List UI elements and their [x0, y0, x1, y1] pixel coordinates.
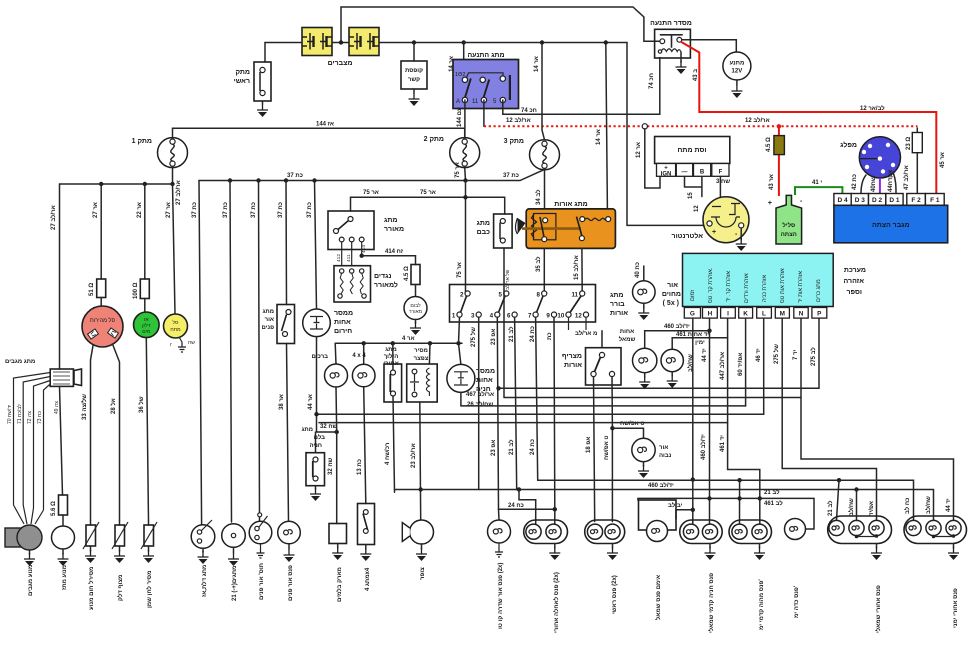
svg-text:נגדים: נגדים — [374, 273, 391, 280]
dimmer high beam wire — [611, 377, 613, 522]
svg-text:M: M — [780, 311, 785, 318]
svg-text:P: P — [817, 311, 822, 318]
ballast resistor 4.5 ohm — [774, 136, 785, 155]
svg-text:( 5x ): ( 5x ) — [663, 300, 679, 307]
svg-text:אקדח44: אקדח44 — [888, 170, 894, 192]
svg-text:שח 3: שח 3 — [716, 179, 730, 185]
fuel float sender — [119, 521, 121, 525]
svg-text:מתג 4x4: מתג 4x4 — [365, 567, 371, 591]
wire bus to breaker3 — [542, 43, 545, 140]
svg-text:מתג דלת,אז: מתג דלת,אז — [200, 565, 208, 597]
brake light switch (center) — [494, 214, 512, 248]
svg-text:H: H — [708, 311, 713, 318]
svg-text:73 כח: 73 כח — [37, 411, 43, 424]
svg-text:כת 37: כת 37 — [307, 202, 313, 218]
distributor wires to module — [861, 175, 866, 194]
svg-text:מ אר/לב: מ אר/לב — [575, 329, 597, 337]
svg-text:שח: שח — [188, 340, 195, 346]
svg-text:אר 75: אר 75 — [457, 262, 463, 278]
side marker lamp single — [498, 509, 501, 520]
starter motor 12V — [723, 52, 751, 80]
svg-text:מסדר התנעה: מסדר התנעה — [650, 20, 692, 27]
svg-text:מתג: מתג — [384, 217, 397, 224]
4x4 indicator — [363, 343, 365, 364]
ar4 accessory line — [335, 342, 462, 344]
wiper switch assembly — [50, 369, 81, 386]
svg-text:כת 13: כת 13 — [357, 459, 363, 475]
svg-text:זמזם: זמזם — [690, 290, 696, 301]
svg-text:אר 43: אר 43 — [769, 174, 775, 190]
battery B2 — [349, 28, 379, 56]
svg-text:כח 24: כח 24 — [508, 503, 524, 509]
svg-text:סל: סל — [173, 319, 179, 326]
svg-text:פנס אחורי ימני: פנס אחורי ימני — [953, 588, 959, 628]
starter relay box — [655, 29, 691, 58]
svg-text:5: 5 — [499, 292, 503, 299]
red wire to ballast resistor and coil — [778, 126, 780, 196]
svg-text:אר 22: אר 22 — [137, 202, 143, 218]
svg-text:F: F — [719, 170, 723, 176]
svg-text:שח/לב 26: שח/לב 26 — [467, 400, 493, 408]
svg-text:4.5 Ω: 4.5 Ω — [766, 137, 772, 152]
svg-text:אורות: אורות — [610, 310, 628, 317]
resistor 51 ohm — [97, 279, 106, 298]
fuel gauge — [134, 312, 160, 338]
svg-text:מצברים: מצברים — [328, 60, 353, 67]
bus E — [319, 422, 728, 424]
wire relay to starter motor — [682, 40, 737, 52]
main parking bus 460 — [395, 490, 934, 522]
ignition module pins D4 D3 D2 D1 F2 F1 — [834, 194, 944, 206]
knee lamp circle — [334, 343, 337, 364]
svg-text:אפ 23: אפ 23 — [491, 329, 497, 345]
wire to capacitor box — [413, 43, 415, 62]
kat37 drops left — [199, 181, 202, 525]
svg-text:2: 2 — [460, 292, 464, 299]
svg-text:סל מהירות: סל מהירות — [90, 317, 116, 324]
left side marker with connector — [639, 500, 677, 530]
horn relay — [428, 343, 431, 364]
dimmer low beam wire to headlamps — [594, 377, 595, 522]
svg-text:מתגים(+-) 21: מתגים(+-) 21 — [232, 566, 238, 601]
turn signal indicator lamp — [643, 266, 645, 281]
svg-text:שח/לב: שח/לב — [847, 498, 855, 516]
svg-text:אר/לב 15: אר/לב 15 — [572, 255, 580, 280]
junctions on left bus — [99, 182, 103, 186]
fuse circuit breaker 3 — [530, 140, 560, 170]
svg-text:נבוה: נבוה — [659, 453, 672, 459]
svg-text:N: N — [799, 311, 804, 318]
fuel sender wire — [146, 338, 148, 521]
svg-text:כת 37: כת 37 — [503, 173, 519, 179]
svg-text:כת 37: כת 37 — [251, 202, 257, 218]
svg-text:5.6 Ω: 5.6 Ω — [51, 501, 57, 516]
svg-text:כבם: כבם — [477, 229, 491, 236]
wire to interior light switch — [286, 181, 289, 522]
svg-text:חכ 74: חכ 74 — [649, 73, 655, 89]
ground below alternator — [740, 228, 742, 240]
svg-text:4: 4 — [490, 313, 494, 320]
svg-text:אור: אור — [667, 282, 678, 289]
svg-text:שח 32: שח 32 — [328, 457, 334, 475]
svg-text:עם 144: עם 144 — [457, 107, 463, 127]
wire bus to wiper switch — [59, 184, 61, 369]
svg-text:אזהרת ורדים: אזהרת ורדים — [744, 273, 750, 303]
reverse gear switch — [392, 343, 394, 372]
svg-text:חירום: חירום — [334, 328, 352, 335]
svg-text:פנס כדה ימ': פנס כדה ימ' — [794, 585, 800, 618]
high beam indicator — [612, 428, 643, 438]
bus D — [317, 413, 764, 415]
junction ignition feed — [462, 40, 466, 44]
svg-text:יד/לב 460: יד/לב 460 — [648, 481, 674, 489]
left lamp bus — [60, 183, 173, 185]
bus A 467 — [499, 387, 820, 389]
fuse circuit breaker 1 — [158, 138, 188, 168]
svg-text:כת 37: כת 37 — [287, 173, 303, 179]
svg-text:אר 12: אר 12 — [636, 142, 642, 158]
side marker branch 461 — [638, 498, 814, 500]
svg-text:כת 42: כת 42 — [852, 174, 858, 190]
right side marker with loop — [785, 519, 806, 540]
red wire: starter relay to F1 — [681, 42, 937, 194]
fan resistor block — [334, 266, 371, 302]
washer feed with 5.6 ohm — [60, 387, 63, 496]
bus C — [461, 405, 746, 407]
courtesy switch A — [191, 520, 215, 548]
svg-text:אר 14: אר 14 — [596, 129, 602, 145]
svg-text:מצוף דלק: מצוף דלק — [116, 575, 124, 601]
svg-text:רכ/שח 4: רכ/שח 4 — [385, 443, 391, 465]
license plate lamp pair — [524, 520, 568, 544]
svg-text:ב 43: ב 43 — [693, 69, 699, 81]
svg-text:אזהרת קר. יד: אזהרת קר. יד — [726, 271, 732, 302]
washer pump — [52, 526, 75, 549]
svg-text:אר 14: אר 14 — [534, 56, 540, 72]
svg-text:למאורר: למאורר — [374, 281, 398, 289]
svg-text:A: A — [456, 99, 460, 105]
svg-text:פנס אור שדרה קו טו (2x): פנס אור שדרה קו טו (2x) — [498, 563, 504, 629]
wire labels above rear-left cluster — [856, 490, 858, 521]
dome lamp — [278, 521, 301, 544]
brake fluid sender box — [329, 524, 347, 544]
red node to coil — [777, 124, 781, 128]
wiper harness fan-out — [14, 373, 51, 511]
svg-text:23 Ω: 23 Ω — [906, 137, 912, 150]
svg-text:חניה: חניה — [309, 443, 322, 449]
svg-text:לב/אר 12: לב/אר 12 — [860, 104, 885, 112]
ignition switch box — [453, 60, 519, 109]
svg-text:אזהרת קר. טס.: אזהרת קר. טס. — [708, 267, 714, 303]
wire to hazard flasher — [315, 181, 317, 310]
front parking lamp left — [680, 520, 723, 544]
svg-text:L: L — [762, 311, 766, 318]
svg-text:מערכת: מערכת — [844, 267, 866, 274]
svg-text:B: B — [700, 170, 705, 176]
svg-text:אר 27: אר 27 — [166, 202, 172, 218]
speedo sender wires — [91, 344, 120, 521]
svg-text:אר/לב 47: אר/לב 47 — [902, 165, 910, 190]
svg-text:לבום: לבום — [410, 302, 421, 309]
svg-text:460 יד/לב: 460 יד/לב — [699, 434, 707, 460]
svg-text:אור: אור — [659, 445, 668, 451]
parking lights relay — [459, 343, 461, 364]
svg-text:פנים: פנים — [261, 325, 274, 331]
svg-text:בלם: בלם — [314, 433, 326, 441]
svg-text:כת: כת — [547, 332, 553, 340]
svg-text:לב 21: לב 21 — [507, 439, 515, 455]
svg-text:אלטרנטור: אלטרנטור — [672, 232, 704, 240]
svg-text:F 2: F 2 — [911, 197, 921, 204]
wire 5 terminal to starter relay coil — [503, 58, 660, 115]
svg-text:מאורר: מאורר — [384, 226, 404, 233]
license lamp feed kah24 — [499, 508, 555, 510]
svg-text:מסירל חום מנוע: מסירל חום מנוע — [87, 567, 95, 610]
svg-text:מנוע מתז: מנוע מתז — [62, 565, 68, 590]
svg-text:אר/לב 12: אר/לב 12 — [745, 116, 770, 124]
svg-text:הצתה: הצתה — [781, 232, 797, 238]
svg-text:36 של: 36 של — [137, 396, 145, 413]
svg-text:יד/לב 460: יד/לב 460 — [664, 322, 690, 330]
svg-text:I: I — [727, 311, 729, 318]
ground below main switch — [262, 101, 264, 104]
svg-text:אפ 23: אפ 23 — [491, 440, 497, 456]
feed from selector terminal 10 — [459, 317, 460, 343]
map lamp switch — [249, 513, 272, 544]
svg-text:אר 75: אר 75 — [363, 190, 379, 196]
svg-text:אר 44: אר 44 — [308, 394, 314, 410]
cluster pin drop wires — [692, 318, 694, 524]
svg-text:אר 75: אר 75 — [420, 190, 436, 196]
svg-text:אר/לב 27: אר/לב 27 — [174, 180, 182, 205]
wire bus to lighting relay coil right — [606, 43, 608, 209]
green wire coil to D4 — [795, 187, 842, 195]
parking brake switch — [315, 432, 317, 453]
svg-text:מתק 3: מתק 3 — [504, 138, 524, 145]
svg-text:מתג מגבים: מתג מגבים — [5, 359, 35, 365]
junction capacitor — [412, 40, 416, 44]
dimmer switch — [601, 331, 603, 348]
4x4 switch — [358, 504, 375, 545]
heater fan switch box — [328, 211, 374, 250]
svg-text:יד 44: יד 44 — [946, 498, 952, 512]
front parking lamp right — [729, 520, 772, 544]
svg-text:ברכים: ברכים — [312, 354, 329, 360]
svg-text:מצריף: מצריף — [562, 353, 582, 360]
ground below capacitor — [413, 89, 415, 93]
svg-text:מתג אורות: מתג אורות — [554, 201, 587, 208]
resistor 100 ohm — [140, 279, 149, 299]
temp sender — [90, 521, 92, 525]
horn feed line — [419, 487, 423, 491]
selector drop wires — [478, 317, 480, 489]
rear lamp cluster left — [828, 516, 892, 544]
wire breaker1 down to left bus — [172, 167, 174, 184]
svg-text:71 לב/כח: 71 לב/כח — [16, 404, 23, 424]
marker-connector link — [676, 510, 693, 519]
svg-text:שח40: שח40 — [871, 176, 877, 192]
svg-text:זח 414: זח 414 — [385, 249, 404, 255]
wire breaker3 down to lighting relay — [544, 170, 546, 209]
svg-text:אר/לב 12: אר/לב 12 — [506, 116, 531, 124]
svg-text:לב 275: לב 275 — [809, 347, 817, 366]
wire breaker2 down to center bus — [464, 167, 467, 180]
svg-text:לב 21: לב 21 — [764, 488, 780, 496]
wire 11 terminal down to red dotted start — [483, 100, 485, 126]
svg-text:כח לב: כח לב — [903, 498, 911, 514]
svg-text:מתח: מתח — [170, 327, 181, 333]
svg-text:D 3: D 3 — [855, 197, 866, 204]
capacitor box — [401, 61, 427, 89]
svg-text:יד 461: יד 461 — [720, 435, 726, 452]
lighting relay box (orange) — [516, 209, 616, 249]
svg-text:לב 21: לב 21 — [826, 500, 834, 516]
svg-text:3: 3 — [471, 313, 475, 320]
svg-text:מתג כרים: מתג כרים — [816, 279, 822, 302]
oil pressure sender — [148, 521, 150, 525]
svg-text:אזהרת אות טס: אזהרת אות טס — [780, 268, 786, 303]
wiper motor — [5, 525, 42, 550]
interior light switch — [277, 305, 295, 344]
svg-text:שח/לב: שח/לב — [924, 496, 932, 514]
svg-text:11: 11 — [571, 292, 578, 299]
svg-text:ט אפ/שח: ט אפ/שח — [604, 436, 610, 461]
svg-text:49 צה: 49 צה — [54, 401, 60, 414]
bus H2 marker feed — [538, 480, 914, 521]
node on dotted line to regulator — [642, 124, 647, 129]
ground below starter — [736, 80, 738, 85]
svg-text:K: K — [743, 311, 748, 318]
svg-text:4 x 4: 4 x 4 — [352, 353, 366, 359]
svg-text:אר/לב 27: אר/לב 27 — [49, 205, 57, 230]
svg-text:7: 7 — [528, 313, 532, 320]
fan switch wires down — [342, 242, 362, 266]
headlamp pair — [585, 520, 625, 544]
svg-text:דלק: דלק — [142, 322, 151, 329]
fan dropping resistor 4.5 — [411, 265, 420, 285]
svg-text:אזהרת כניה: אזהרת כניה — [762, 275, 768, 302]
wires lighting relay to selector — [544, 248, 582, 293]
svg-text:י 41: י 41 — [812, 180, 822, 186]
svg-text:אור: אור — [265, 317, 274, 323]
svg-text:צפצר: צפצר — [414, 356, 429, 362]
wire to 100ohm resistor and fuel gauge — [144, 184, 146, 279]
svg-text:414: 414 — [361, 245, 367, 253]
svg-text:+: + — [712, 229, 716, 236]
svg-text:ימין: ימין — [695, 340, 705, 346]
svg-text:תוס' אור פנים: תוס' אור פנים — [259, 563, 265, 600]
svg-text:447 אר/לב: 447 אר/לב — [718, 352, 726, 380]
svg-text:לב 35: לב 35 — [534, 256, 542, 272]
wire 144 between breaker1 and breaker2 — [173, 128, 465, 137]
wire A terminal down to fuse2 — [464, 100, 466, 138]
speedometer gauge — [82, 306, 123, 347]
left turn lamp — [633, 348, 657, 372]
battery bus feed to alternator — [627, 43, 706, 226]
svg-text:כת 37: כת 37 — [278, 202, 284, 218]
distributor — [859, 137, 900, 178]
svg-text:8: 8 — [537, 292, 541, 299]
svg-text:412: 412 — [336, 254, 342, 262]
svg-text:מסיר: מסיר — [414, 348, 428, 354]
svg-text:מתג התנעה: מתג התנעה — [467, 52, 504, 59]
svg-text:של 275: של 275 — [469, 327, 477, 347]
wire dotted node to IGN pin — [645, 129, 660, 188]
svg-text:אר 75: אר 75 — [455, 162, 461, 178]
svg-text:D 4: D 4 — [837, 197, 848, 204]
svg-text:פנס לאחלה אחורי (2x): פנס לאחלה אחורי (2x) — [552, 572, 560, 633]
svg-text:ראשי: ראשי — [234, 78, 250, 85]
wire kat37 to dome light switch — [259, 181, 260, 522]
svg-text:אחות: אחות — [620, 329, 634, 335]
light selector switch box — [450, 285, 596, 323]
svg-text:12V: 12V — [732, 69, 743, 75]
svg-text:לב 461: לב 461 — [764, 499, 783, 507]
svg-text:10: 10 — [557, 313, 564, 320]
svg-text:אר/לב 467: אר/לב 467 — [466, 390, 494, 398]
battery B1 — [302, 28, 332, 56]
svg-text:וסת מתח: וסת מתח — [678, 147, 707, 154]
ignition module body — [834, 205, 948, 243]
svg-text:אז 144: אז 144 — [316, 122, 334, 128]
wire to 51ohm resistor and speedometer — [100, 184, 102, 279]
cluster pin boxes G..P — [684, 308, 827, 319]
alternator — [703, 197, 749, 243]
bus B 26 — [504, 248, 801, 398]
svg-text:שמאל: שמאל — [619, 335, 636, 343]
svg-text:חכ 74: חכ 74 — [521, 108, 537, 114]
svg-text:12: 12 — [694, 205, 700, 212]
svg-text:מתנע: מתנע — [729, 61, 744, 67]
svg-text:G: G — [690, 311, 695, 318]
svg-text:מגבר הצתה: מגבר הצתה — [872, 222, 910, 229]
svg-text:מסיר לחן שמן: מסיר לחן שמן — [145, 571, 153, 608]
svg-text:F 1: F 1 — [930, 197, 940, 204]
regulator wires to alternator — [685, 177, 721, 200]
svg-text:שח 32: שח 32 — [320, 424, 338, 430]
svg-text:מתג: מתג — [262, 309, 274, 315]
svg-text:אר 27: אר 27 — [93, 202, 99, 218]
svg-text:מים: מים — [142, 329, 151, 335]
svg-text:מחוים: מחוים — [662, 291, 681, 298]
svg-text:28 אל: 28 אל — [109, 398, 117, 414]
svg-text:15: 15 — [688, 192, 694, 199]
svg-text:4.5 Ω: 4.5 Ω — [404, 266, 410, 281]
svg-text:72 צה: 72 צה — [27, 411, 33, 424]
svg-text:100 Ω: 100 Ω — [133, 282, 139, 299]
svg-text:מתק: מתק — [235, 69, 250, 76]
svg-text:D 1: D 1 — [889, 197, 900, 204]
turn feed line 461 — [672, 338, 727, 349]
junction battery mid — [339, 40, 343, 44]
charge indicator — [164, 314, 188, 338]
svg-text:מתג: מתג — [477, 220, 490, 227]
ignition coil — [768, 195, 803, 244]
svg-text:לב 21: לב 21 — [507, 326, 515, 342]
svg-text:70 יד/שח: 70 יד/שח — [7, 405, 13, 424]
wire: top feed from battery junction to starter relay — [341, 7, 660, 42]
svg-text:44 יד: 44 יד — [702, 348, 708, 362]
svg-text:מתק 2: מתק 2 — [424, 136, 444, 143]
wire: bus left drop to main switch — [264, 43, 266, 63]
svg-text:אר/לב 23: אר/לב 23 — [409, 443, 417, 468]
svg-text:אזהרה: אזהרה — [844, 278, 865, 285]
wire bus to ignition switch — [463, 43, 465, 81]
hazard down to parking brake junction — [317, 337, 337, 432]
main switch box — [254, 62, 271, 101]
svg-text:אזהרת אות יד: אזהרת אות יד — [798, 271, 804, 303]
svg-text:9: 9 — [546, 313, 550, 320]
